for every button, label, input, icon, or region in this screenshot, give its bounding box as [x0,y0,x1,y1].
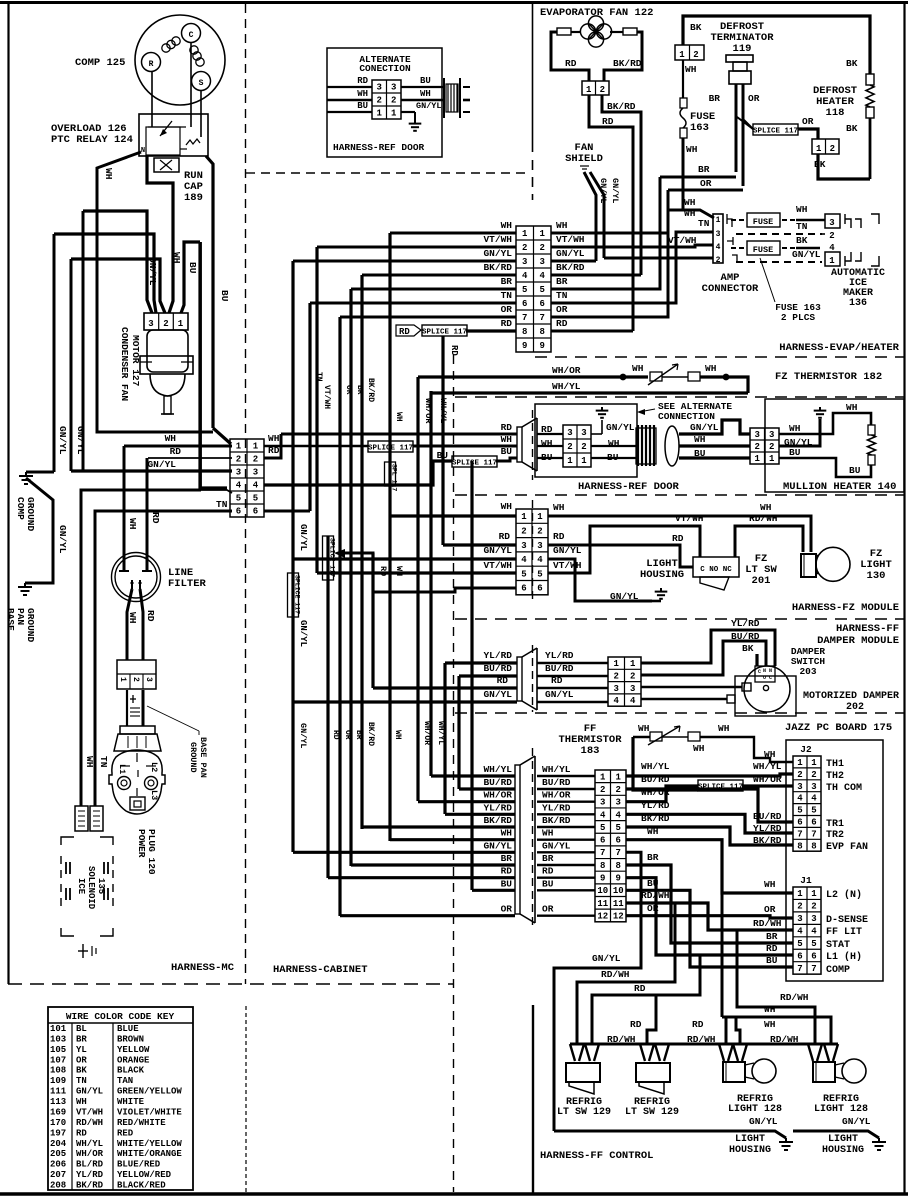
wire BK/RD to J2 pin8 [626,827,793,845]
svg-text:WH: WH [718,723,730,734]
svg-text:SPLICE 117: SPLICE 117 [452,459,497,467]
svg-text:BK/RD: BK/RD [613,58,642,69]
label OR leg [748,93,760,104]
svg-text:GREEN/YELLOW: GREEN/YELLOW [117,1087,182,1097]
svg-text:RD: RD [449,345,459,356]
label RD/WH bottom1 [601,969,630,980]
condenser fan connector 3-2-1 [144,313,188,330]
label RUN CAP 189 [184,170,203,204]
svg-text:3: 3 [716,230,721,239]
svg-text:RD: RD [551,675,563,686]
label RD refdoor [501,422,513,433]
svg-text:3: 3 [253,468,258,478]
svg-text:VT/WH: VT/WH [668,235,697,246]
svg-text:YELLOW/RED: YELLOW/RED [117,1170,172,1180]
evaporator fan symbol [580,16,611,47]
svg-text:BR: BR [501,853,513,864]
plug connector 1-2-3 [117,660,156,689]
svg-text:FUSE: FUSE [753,217,773,227]
compressor pin R [142,53,161,72]
label RD evap [565,58,577,69]
wire BU/RD to J2 pin6 [626,789,793,822]
label BK top left [690,22,702,33]
condenser fan motor body [140,330,193,414]
svg-text:5: 5 [521,569,526,579]
svg-text:J2: J2 [800,744,812,755]
svg-text:3: 3 [797,782,802,792]
svg-text:VT/WH: VT/WH [556,234,585,245]
label RD in refdoor [541,424,553,435]
wire GN/YL row3 left [293,260,516,263]
label BU refdoor r [607,452,619,463]
svg-text:GN/YL: GN/YL [556,248,585,259]
label BASE PAN GROUND rotated [188,737,208,778]
svg-text:7: 7 [540,313,545,323]
defrost heater connector 1-2 [812,139,839,154]
svg-text:R: R [149,60,154,69]
label RD rot x443 [449,345,459,356]
label BU/RD j2 [753,811,782,822]
alternate conection box [327,48,442,157]
wire WH refdoor [264,445,517,448]
base pan ground symbol [18,583,32,595]
svg-text:202: 202 [846,702,864,713]
label OR row7 L [501,304,513,315]
svg-text:WHITE/YELLOW: WHITE/YELLOW [117,1139,182,1149]
label TN row6 L [501,290,513,301]
ice solenoid ground mark [78,944,96,958]
comp ground symbol [19,472,33,484]
label BR leg [709,93,721,104]
svg-text:1: 1 [391,109,397,119]
svg-text:5: 5 [253,494,258,504]
svg-text:RD: RD [145,610,156,622]
svg-text:113: 113 [50,1097,66,1107]
wire comp S to relay [200,91,202,137]
svg-text:BK/RD: BK/RD [483,262,512,273]
crimp terminal TN [90,806,103,831]
svg-text:6: 6 [522,299,527,309]
svg-text:BR: BR [355,385,364,395]
label GN/YL rotated x71 [75,426,86,455]
svg-text:FF LIT: FF LIT [826,927,862,938]
svg-text:WH: WH [501,828,513,839]
fz light socket and bulb [801,547,850,581]
refrig light 2 [813,1059,866,1083]
power plug body [109,726,165,814]
alt ground [409,112,422,131]
svg-text:TN: TN [501,290,513,301]
svg-text:OR: OR [344,385,353,395]
svg-text:1: 1 [630,659,636,669]
svg-text:VIOLET/WHITE: VIOLET/WHITE [117,1107,182,1117]
svg-text:RD: RD [268,445,280,456]
svg-text:WH/OR: WH/OR [422,721,431,745]
wire BR ff [351,863,515,866]
svg-text:WH/YL: WH/YL [753,761,782,772]
evap 9-pin connector [516,226,551,352]
wire BU/RD damper right [641,641,766,675]
svg-text:BU/RD: BU/RD [731,631,760,642]
label WH mullion [789,423,801,434]
svg-text:BR: BR [766,931,778,942]
svg-text:RD: RD [766,943,778,954]
wires+labels ff chevron to connector [537,764,595,916]
svg-text:1: 1 [178,319,184,329]
wire WH relay to bus [97,152,213,432]
label HARNESS-MC [171,962,235,974]
funnel sw2 [640,1044,669,1061]
svg-text:RD: RD [501,318,513,329]
svg-text:YL/RD: YL/RD [76,1170,104,1180]
label COMP GROUND [15,497,36,532]
defrost loop top wire [683,16,870,74]
label WH fz left [632,363,644,374]
svg-text:TN: TN [556,290,568,301]
fan shield mark [580,166,589,169]
svg-text:YL/RD: YL/RD [545,650,574,661]
svg-text:1: 1 [716,216,721,225]
svg-text:2: 2 [797,902,802,912]
svg-text:BR: BR [354,730,363,740]
svg-text:WH: WH [608,438,620,449]
svg-text:1: 1 [586,85,592,95]
svg-text:GN/YL: GN/YL [483,545,512,556]
wire GN/YL fz right [548,559,652,601]
label DAMPER SWITCH 203 [791,646,826,677]
jazz pc board outer box [786,740,883,981]
label WH/YL ff r [641,761,670,772]
mullion ground [814,407,827,418]
refrig lt sw 2 [636,1063,670,1094]
label HARNESS-FF CONTROL [540,1150,653,1162]
svg-text:BK: BK [76,1066,87,1076]
svg-text:5: 5 [537,569,542,579]
svg-text:1: 1 [829,256,835,266]
svg-text:WH: WH [764,749,776,760]
amp connector body [713,214,723,265]
label RD rotated filter [145,512,161,622]
wire WH fz right long [548,516,811,552]
svg-text:YL: YL [76,1045,87,1055]
label LIGHT HOUSING 2 [822,1134,864,1156]
svg-text:CONNECTOR: CONNECTOR [702,283,759,295]
svg-text:WH: WH [542,828,554,839]
svg-text:GN/YL: GN/YL [75,426,86,455]
svg-text:BU: BU [219,290,230,302]
labels J1 right [826,889,868,976]
wire WH mullion top [779,402,871,434]
wire YL/RD damper [445,661,517,664]
svg-text:BK: BK [796,235,808,246]
wire VT/WH fz right [548,526,700,573]
label BK/RD j2 [753,835,782,846]
svg-text:1: 1 [614,659,620,669]
label YL/RD j2 [753,823,782,834]
svg-text:TN: TN [216,499,228,510]
fz ground [652,588,667,601]
svg-text:WH: WH [684,208,696,219]
label BU j1 [766,955,778,966]
label FZ LT SW 201 [745,553,777,587]
fz thermistor symbol [648,364,700,385]
svg-text:WH: WH [501,220,513,231]
svg-text:RD/WH: RD/WH [780,992,809,1003]
svg-text:RD/WH: RD/WH [601,969,630,980]
svg-text:8: 8 [811,841,816,851]
ref door box [535,404,637,477]
svg-text:1: 1 [811,889,817,899]
wire RD damper right [641,683,751,691]
label WH plug leg [84,756,95,768]
label WH row1 L [501,220,513,231]
svg-text:101: 101 [50,1024,67,1034]
wire RD row8 left [466,329,516,332]
wire color code key table [48,1007,193,1191]
damper chevron [517,648,537,710]
label WH ffth right [718,723,730,734]
svg-text:4: 4 [811,927,817,937]
svg-text:J1: J1 [800,875,812,886]
separator fz module [455,618,905,620]
svg-text:HOUSING: HOUSING [640,569,684,581]
base pan ground attach mark [130,695,140,716]
svg-text:BLACK/RED: BLACK/RED [117,1181,166,1191]
svg-text:VT/WH: VT/WH [483,560,512,571]
page border bottom [0,1192,908,1196]
plug terminal L3 [130,790,159,810]
alt conn wires left [327,87,372,112]
svg-text:RD: RD [692,1019,704,1030]
svg-text:GN/YL: GN/YL [610,591,639,602]
svg-text:4: 4 [540,271,546,281]
svg-text:4: 4 [614,696,620,706]
label RD fz R [553,531,565,542]
alt connector [372,80,401,119]
svg-text:4: 4 [236,481,242,491]
svg-text:HARNESS-FZ MODULE: HARNESS-FZ MODULE [792,602,899,614]
label LIGHT HOUSING 1 [729,1134,771,1156]
label WH fz right [705,363,717,374]
evap fan loop wire right [604,32,642,81]
label BU/RD ff r [641,774,670,785]
svg-text:197: 197 [50,1128,66,1138]
amp connector pin brackets [727,214,737,263]
svg-text:L3: L3 [149,790,159,800]
wire TN MC row6 to plug leg [95,511,232,806]
bus WH/YL x431 [429,391,432,776]
wire WH row1 right [551,210,714,233]
label MULLION HEATER 140 [783,481,896,493]
J2 connector [793,744,821,851]
svg-text:GROUND: GROUND [188,742,198,773]
wire VT/WH fz row5 [317,571,516,574]
svg-text:GN/YL: GN/YL [147,459,176,470]
svg-text:VT/WH: VT/WH [483,234,512,245]
svg-text:BK: BK [690,22,702,33]
wire BK/RD ff [362,825,515,828]
svg-text:OR: OR [76,1055,87,1065]
label HARNESS-REF DOOR alt [333,142,425,153]
label TN MC row6 [216,499,228,510]
label DEFROST TERMINATOR 119 [710,21,774,55]
alt conn wires right [401,87,443,112]
svg-text:8: 8 [600,861,605,871]
label OR row7 R [556,304,568,315]
label BK/RD row4 R [556,262,585,273]
comp ground wire [26,471,54,474]
svg-text:2: 2 [522,243,527,253]
svg-text:EVP FAN: EVP FAN [826,842,868,853]
svg-text:8: 8 [616,861,621,871]
svg-text:OR: OR [556,304,568,315]
relay internal overload contact [146,121,186,155]
fuse box 2 dashed [731,241,796,255]
svg-text:3: 3 [600,798,605,808]
label WH center [268,433,280,444]
svg-text:8: 8 [540,327,545,337]
label FZ THERMISTOR 182 [775,371,882,383]
label BU/RD damper M [545,663,574,674]
wire BU bus x200 down [200,242,227,488]
svg-text:RD: RD [630,1019,642,1030]
label WH/YL j2 [753,761,782,772]
label BU in refdoor [541,452,553,463]
wire RD/WH to sw1 [577,903,675,1044]
label relay N terminal [141,147,145,155]
svg-text:WH: WH [556,220,568,231]
svg-text:10: 10 [613,886,624,896]
svg-text:2: 2 [567,442,572,452]
svg-text:OR: OR [764,904,776,915]
label JAZZ PC BOARD 175 [785,722,892,734]
svg-text:107: 107 [50,1055,66,1065]
label RD j1 [766,943,778,954]
svg-text:1: 1 [537,512,543,522]
ref door chevron [517,418,537,471]
svg-text:WH: WH [171,252,182,264]
wire BK/RD row4 left [362,274,516,277]
svg-text:GN/YL: GN/YL [57,525,68,554]
label WH/OR ff r [641,787,670,798]
svg-text:WH/OR: WH/OR [552,365,581,376]
wire WH row1 left [390,232,516,235]
svg-text:GN/YL: GN/YL [606,422,635,433]
svg-text:BU/RD: BU/RD [753,811,782,822]
label BR row5 L [501,276,513,287]
wire RD damper [373,686,517,689]
label RD/WH ff r [641,890,670,901]
svg-text:GN/YL: GN/YL [542,840,571,851]
funnel light1 [719,1044,747,1061]
J1 connector [793,875,821,974]
wire WH/OR ff [418,800,515,803]
wire GN/YL MC row3 [71,469,232,472]
label GN/YL fz R [553,545,582,556]
label GN/YL damper L [483,689,512,700]
label TN plug leg [98,756,109,768]
wire BU ff [472,889,515,892]
label BK/RD ff r [641,813,670,824]
svg-text:BROWN: BROWN [117,1034,144,1044]
svg-text:BK/RD: BK/RD [556,262,585,273]
svg-text:3: 3 [755,430,760,440]
label BU/RD damper L [483,663,512,674]
svg-text:3: 3 [567,428,572,438]
svg-text:GN/YL: GN/YL [298,524,308,551]
label BU alt r [420,76,431,86]
svg-text:ORANGE: ORANGE [117,1055,150,1065]
svg-text:BU: BU [849,465,861,476]
damper 4-pin connector [608,657,641,706]
wire damper rows mid [537,663,608,702]
label GN/YL refdoor [606,422,635,433]
wire GN/YL damper [293,700,517,703]
svg-text:118: 118 [826,107,845,119]
svg-text:YELLOW: YELLOW [117,1045,150,1055]
svg-text:VT/WH: VT/WH [76,1107,103,1117]
svg-text:RD: RD [501,866,513,877]
label OR j1 [764,904,776,915]
wire comp R to relay [151,72,153,127]
wire OR horizontal [668,189,743,192]
bus BK/RD x362 [360,275,363,829]
svg-text:C: C [189,31,194,40]
splice 117 row8 [422,325,467,336]
svg-text:BR: BR [698,164,710,175]
label WH fz long [760,502,772,513]
label WH refdoor 2 [694,434,706,445]
label YL/RD damper M [545,650,574,661]
svg-text:MULLION HEATER 140: MULLION HEATER 140 [783,481,896,493]
label HARNESS-FF DAMPER MODULE [817,623,899,647]
svg-text:N: N [763,668,766,674]
label VT/WH row2 L [483,234,512,245]
fuse 163 on WH leg [680,60,687,211]
label WH ffth left [638,723,650,734]
label TN icemaker [796,221,808,232]
run cap connector box [154,158,179,172]
vertical splice on GN/YL [288,573,301,617]
svg-text:8: 8 [797,841,802,851]
svg-text:6: 6 [811,817,816,827]
wire OR terminator right leg [742,84,745,186]
svg-text:STAT: STAT [826,940,850,951]
separator harness-evap/heater [535,356,905,358]
svg-text:RD: RD [672,533,684,544]
wire WH refdoor 2 [679,444,750,447]
svg-text:1: 1 [616,772,622,782]
label RD/WH c1 [607,1034,636,1045]
mullion resistor [868,425,876,465]
svg-text:3: 3 [521,541,526,551]
compressor pin C [182,24,201,43]
svg-text:7: 7 [797,964,802,974]
svg-text:1: 1 [253,442,259,452]
wire GN/YL damper right [641,695,735,703]
label WH amp2 [684,208,696,219]
label WH/YL rot [438,398,448,424]
svg-text:1: 1 [797,889,803,899]
label BK icemaker [796,235,808,246]
svg-text:HARNESS-REF DOOR: HARNESS-REF DOOR [333,142,425,153]
wire plug leads [127,690,143,726]
label OR ff r [647,903,659,914]
svg-text:C: C [769,675,772,681]
svg-text:5: 5 [811,806,816,816]
label BR horiz [698,164,710,175]
icemaker pin4 [829,243,835,253]
